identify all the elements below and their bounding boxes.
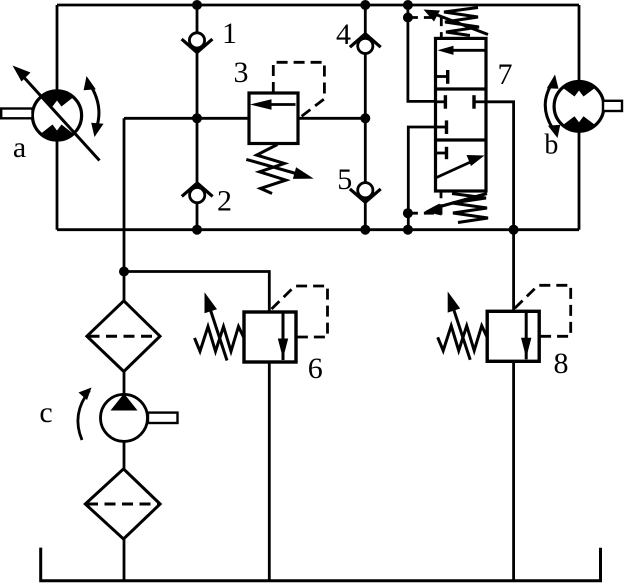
wire: right vertical through motor b bbox=[578, 5, 581, 230]
relief valve 8 spring bbox=[438, 326, 488, 351]
relief valve 6 spring bbox=[195, 327, 245, 352]
valve 7 bottom spring bbox=[452, 194, 488, 223]
wire: valve 7 right port line down to relief valve 8 and tank bbox=[486, 102, 514, 581]
pump c (charge pump) bbox=[101, 394, 148, 442]
pump c shaft bbox=[148, 413, 178, 423]
valve 7 middle position: blocked port bottom-left bbox=[436, 120, 447, 134]
valve 7 bottom position: diagonal arrow bbox=[437, 155, 485, 178]
pump a variable displacement arrow bbox=[13, 66, 100, 161]
check valve 4 bbox=[350, 34, 381, 54]
node: top bus / valve 7 left line bbox=[403, 0, 413, 10]
relief valve 6 pilot line (dashed) bbox=[272, 286, 328, 337]
valve 7 bottom spring arrow bbox=[425, 194, 488, 216]
wire: left vertical through pump a bbox=[56, 5, 59, 230]
relief valve 6 body bbox=[244, 312, 296, 362]
motor b shaft bbox=[603, 101, 622, 111]
valve 7 top position: arrow left bbox=[438, 46, 486, 55]
svg-text:b: b bbox=[544, 130, 558, 161]
svg-text:a: a bbox=[13, 131, 26, 164]
node: valve 7 top pilot branch bbox=[403, 13, 413, 23]
relief valve 8 spring adjust arrow bbox=[448, 292, 471, 360]
node: bottom bus / check branch left bbox=[192, 225, 202, 235]
relief valve 3 spring adjust arrow bbox=[246, 159, 313, 179]
wire: branch to relief valve 6 and to tank bbox=[124, 272, 269, 581]
svg-text:8: 8 bbox=[554, 347, 569, 380]
wire: charge line horizontal bbox=[124, 117, 365, 120]
svg-text:2: 2 bbox=[217, 185, 232, 218]
node: charge line / check branch right bbox=[360, 113, 370, 123]
check valve 1 bbox=[182, 33, 213, 53]
wire: check valve branch left (through valves 1,2) bbox=[196, 5, 199, 230]
node: bottom bus / check branch right bbox=[360, 225, 370, 235]
svg-text:7: 7 bbox=[498, 58, 513, 91]
check valve 5 bbox=[350, 183, 381, 203]
directional valve 7 body bbox=[436, 38, 487, 191]
node: top bus / check branch left bbox=[192, 0, 202, 10]
pump a (variable displacement pump/motor) bbox=[29, 88, 85, 143]
pump a shaft bbox=[1, 109, 32, 119]
relief valve 6 spring adjust arrow bbox=[205, 292, 228, 360]
valve 7 middle position: blocked port top-right bbox=[474, 95, 486, 109]
svg-text:6: 6 bbox=[308, 352, 323, 385]
valve 7 top spring bbox=[444, 8, 479, 36]
svg-text:1: 1 bbox=[222, 17, 237, 50]
valve 7 middle position: blocked port top-left bbox=[436, 95, 446, 109]
filter lower bbox=[85, 469, 160, 539]
svg-text:4: 4 bbox=[336, 18, 351, 51]
valve 7 bottom position: blocked port bbox=[436, 147, 447, 159]
valve 7 top position: blocked port bbox=[436, 70, 448, 84]
relief valve 3 pilot line (dashed) bbox=[273, 62, 324, 117]
wire: charge line vertical down to pump c bbox=[123, 118, 126, 580]
motor b rotation arrow bbox=[545, 75, 560, 139]
pump a rotation arrow bbox=[84, 76, 104, 137]
node: bottom bus / valve 8 line bbox=[509, 225, 519, 235]
svg-text:5: 5 bbox=[337, 163, 352, 196]
node: bottom bus / valve 7 left line bbox=[403, 225, 413, 235]
wire: valve 7 lower left port line bbox=[408, 127, 435, 230]
valve 7 top spring arrow bbox=[424, 10, 489, 35]
node: top bus / check branch right bbox=[360, 0, 370, 10]
valve 7 bottom pilot line (dashed) bbox=[408, 191, 441, 213]
wire: valve 7 upper left port line bbox=[408, 5, 436, 101]
motor b bbox=[551, 79, 607, 134]
filter upper bbox=[87, 301, 160, 372]
wire: check valve branch right (through valves 4,5) bbox=[364, 5, 367, 230]
valve 7 top pilot line (dashed) bbox=[408, 18, 441, 39]
svg-text:c: c bbox=[39, 396, 52, 429]
pump c rotation arrow bbox=[78, 388, 92, 441]
node: valve 7 bottom pilot branch bbox=[403, 208, 413, 218]
relief valve 8 pilot line (dashed) bbox=[515, 285, 571, 336]
svg-text:3: 3 bbox=[234, 56, 249, 89]
tank bbox=[41, 548, 601, 581]
relief valve 8 body bbox=[487, 311, 539, 361]
wire: bottom bus of main loop bbox=[57, 228, 579, 231]
relief valve 3 body bbox=[249, 93, 298, 144]
node: charge branch to valve 6 bbox=[119, 267, 129, 277]
check valve 2 bbox=[182, 183, 213, 203]
node: charge line / check branch left bbox=[192, 113, 202, 123]
wire: top bus bbox=[57, 4, 579, 7]
relief valve 3 spring bbox=[257, 145, 286, 194]
